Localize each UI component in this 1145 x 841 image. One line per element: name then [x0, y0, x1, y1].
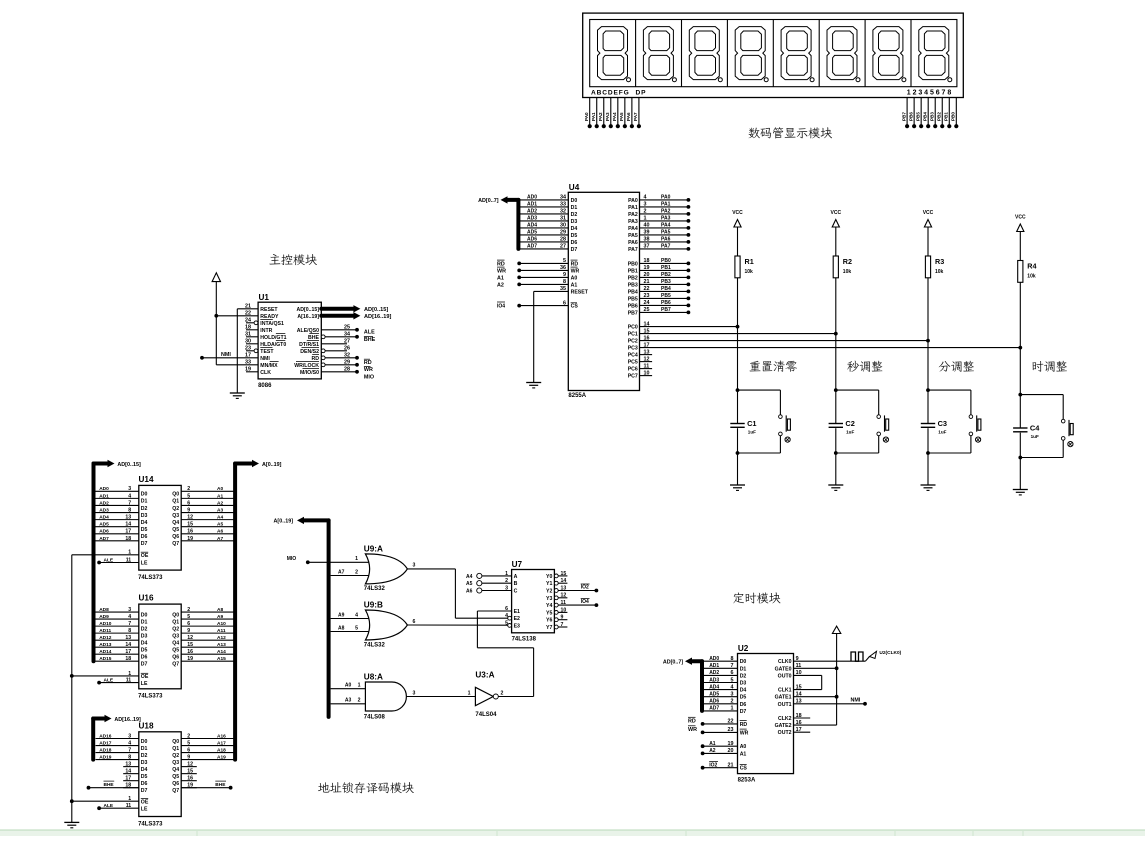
svg-text:15: 15 — [187, 642, 193, 648]
U14 pin 17 D6 wire AD6 — [96, 533, 139, 535]
U18 pin 13 D4 — [123, 766, 139, 768]
U14 pin 18 D7 wire AD7 — [96, 540, 139, 542]
bus A[0..19] decode tap — [327, 520, 331, 717]
wire OUT1 to NMI — [794, 703, 866, 705]
svg-text:AD19: AD19 — [99, 754, 112, 760]
svg-text:14: 14 — [125, 769, 131, 775]
U1 left name overlines — [260, 319, 273, 321]
svg-text:Q1: Q1 — [172, 619, 179, 625]
push button S1 — [738, 389, 781, 391]
svg-text:74LS373: 74LS373 — [138, 694, 163, 700]
svg-text:CS: CS — [740, 766, 748, 772]
U2 pin 22 RD wire RD — [701, 722, 705, 726]
svg-text:34: 34 — [344, 332, 350, 338]
U16 pin 18 D7 wire AD15 — [96, 660, 139, 662]
svg-text:AD2: AD2 — [99, 500, 109, 506]
U4 pin 10 PC7 — [640, 375, 652, 377]
junction bottom of button branch 4 — [1018, 456, 1022, 460]
svg-text:1uF: 1uF — [846, 430, 854, 435]
U1 pin 26 — [321, 350, 347, 352]
svg-text:31: 31 — [560, 216, 566, 222]
bottom pale green strip — [0, 830, 1145, 836]
svg-text:4: 4 — [355, 612, 358, 618]
display pin PA4 — [617, 98, 619, 127]
U18 pin 12 Q4 — [181, 766, 197, 768]
svg-text:PA5: PA5 — [661, 230, 671, 236]
svg-text:32: 32 — [344, 353, 350, 359]
U4 pin 31 D3 wire AD3 — [518, 220, 568, 222]
svg-text:LE: LE — [141, 806, 148, 812]
svg-text:PB0: PB0 — [661, 258, 671, 264]
wire CLK0 to clock source — [794, 660, 866, 662]
svg-text:Q0: Q0 — [172, 739, 179, 745]
ground under U1 — [230, 392, 245, 394]
svg-text:31: 31 — [245, 332, 251, 338]
svg-text:U7: U7 — [512, 560, 523, 569]
U16 pin 1 OE wire — [72, 675, 139, 677]
svg-text:12: 12 — [561, 593, 567, 599]
svg-text:6: 6 — [505, 606, 508, 612]
svg-text:20: 20 — [644, 272, 650, 278]
svg-text:WR: WR — [740, 730, 749, 736]
svg-text:D3: D3 — [141, 513, 148, 519]
U4 pin 32 D2 wire AD2 — [518, 213, 568, 215]
svg-text:19: 19 — [187, 536, 193, 542]
svg-text:3: 3 — [644, 202, 647, 208]
bus AD[0..7] into U2 — [700, 661, 704, 711]
svg-text:17: 17 — [245, 353, 251, 359]
svg-text:11: 11 — [561, 600, 567, 606]
U16 pin 2 Q0 wire A8 — [181, 611, 235, 613]
U7 pin 3 C wire A6 — [477, 588, 482, 593]
svg-text:AD6: AD6 — [709, 699, 719, 705]
svg-text:A18: A18 — [217, 747, 226, 753]
svg-text:Y4: Y4 — [546, 603, 552, 609]
svg-text:13: 13 — [125, 635, 131, 641]
svg-text:1: 1 — [644, 216, 647, 222]
svg-text:3: 3 — [731, 692, 734, 698]
junction top of button branch 1 — [736, 388, 740, 392]
svg-text:D2: D2 — [141, 506, 148, 512]
svg-text:PB5: PB5 — [915, 112, 920, 121]
junction top of button branch 3 — [926, 388, 930, 392]
svg-text:E2: E2 — [514, 616, 520, 622]
svg-text:D1: D1 — [571, 205, 578, 211]
svg-text:A3: A3 — [345, 698, 352, 704]
cpu U1 8086 box — [258, 302, 321, 379]
U18 pin 14 D5 — [123, 773, 139, 775]
svg-text:AD18: AD18 — [99, 747, 112, 753]
display cell divider 6 — [864, 20, 866, 87]
svg-text:5: 5 — [187, 740, 190, 746]
U18 pin 4 D1 wire AD17 — [96, 745, 139, 747]
svg-text:5: 5 — [563, 258, 566, 264]
svg-text:R4: R4 — [1027, 262, 1036, 271]
svg-text:A4: A4 — [466, 574, 473, 580]
wire U3:A out to E1 — [498, 696, 533, 698]
capacitor C3 1uF — [921, 423, 935, 424]
svg-text:IO2: IO2 — [709, 763, 717, 769]
U18 pin 2 Q0 wire A16 — [181, 738, 235, 740]
svg-text:PA6: PA6 — [661, 237, 671, 243]
U2 pin 2 D6 wire AD6 — [702, 703, 738, 705]
U1 pin 29 — [321, 364, 357, 366]
svg-text:10k: 10k — [935, 269, 944, 275]
svg-text:2: 2 — [501, 690, 504, 696]
U14 pin 12 Q4 wire A4 — [181, 519, 235, 521]
svg-text:9: 9 — [563, 272, 566, 278]
svg-text:15: 15 — [644, 328, 650, 334]
svg-text:A2: A2 — [709, 748, 716, 754]
svg-text:16: 16 — [644, 335, 650, 341]
svg-text:8: 8 — [731, 656, 734, 662]
svg-text:PC1: PC1 — [628, 332, 638, 338]
svg-text:23: 23 — [245, 346, 251, 352]
display digit area inner frame — [590, 20, 957, 87]
wire R2 down to capacitor — [835, 278, 837, 423]
svg-text:AD6: AD6 — [99, 529, 109, 535]
U4 pin 8 A1 wire A2 — [517, 283, 521, 287]
U16 pin 6 Q2 wire A10 — [181, 625, 235, 627]
wire capacitor to ground 4 — [1019, 433, 1021, 490]
display pin PB0 — [955, 98, 957, 127]
svg-text:D4: D4 — [141, 640, 148, 646]
svg-text:A[0..19]: A[0..19] — [262, 462, 282, 468]
svg-text:PB4: PB4 — [922, 112, 927, 121]
U2 pin 7 D1 wire AD1 — [702, 667, 738, 669]
svg-text:AD5: AD5 — [99, 522, 109, 528]
svg-text:13: 13 — [561, 585, 567, 591]
U4 pin 34 D0 wire AD0 — [518, 199, 568, 201]
svg-text:16: 16 — [187, 776, 193, 782]
U18 pin 18 D7 — [123, 787, 139, 789]
svg-text:A9: A9 — [217, 614, 223, 620]
U1 pin 30 HLDA/GT0 — [246, 343, 258, 345]
svg-text:BHE: BHE — [104, 782, 115, 788]
svg-text:D0: D0 — [141, 492, 148, 498]
svg-text:D3: D3 — [571, 219, 578, 225]
svg-text:Q4: Q4 — [172, 520, 179, 526]
push button S4 — [1020, 394, 1063, 396]
bus AD[0..15] latch module — [92, 464, 96, 662]
svg-text:PB0: PB0 — [951, 112, 956, 121]
capacitor C2 1uF — [829, 423, 843, 424]
U16 pin 4 D1 wire AD9 — [96, 618, 139, 620]
svg-text:PB3: PB3 — [930, 112, 935, 121]
svg-text:BHE: BHE — [308, 335, 319, 341]
svg-text:C1: C1 — [747, 419, 756, 428]
svg-text:ALE: ALE — [104, 803, 114, 809]
svg-text:A13: A13 — [217, 642, 226, 648]
svg-text:A15: A15 — [217, 656, 226, 662]
svg-text:AD10: AD10 — [99, 621, 112, 627]
U1 pin 27 — [321, 343, 347, 345]
svg-text:11: 11 — [126, 678, 132, 684]
svg-text:A14: A14 — [217, 649, 226, 655]
svg-text:30: 30 — [245, 339, 251, 345]
svg-text:IO4: IO4 — [581, 599, 589, 605]
U16 pin 3 D0 wire AD8 — [96, 611, 139, 613]
svg-text:8255A: 8255A — [568, 393, 586, 399]
resistor R2 10k — [833, 256, 838, 278]
svg-text:PA3: PA3 — [605, 112, 610, 121]
svg-text:1: 1 — [128, 671, 131, 677]
svg-text:A10: A10 — [217, 621, 226, 627]
U16 pin 13 D4 wire AD12 — [96, 639, 139, 641]
U4 pin 28 D6 wire AD6 — [518, 241, 568, 243]
wire GATE2 to VCC — [794, 724, 837, 726]
bus A[0..19] latch module output — [233, 464, 237, 760]
svg-text:23: 23 — [728, 727, 734, 733]
svg-text:24: 24 — [245, 318, 251, 324]
svg-text:PB4: PB4 — [661, 286, 671, 292]
junction PC0 pull-up — [736, 325, 740, 329]
svg-text:28: 28 — [344, 367, 350, 373]
svg-text:PB1: PB1 — [944, 112, 949, 121]
display cell divider 3 — [726, 20, 728, 87]
svg-text:Y1: Y1 — [546, 581, 552, 587]
svg-text:PB3: PB3 — [661, 279, 671, 285]
svg-text:A0: A0 — [740, 744, 747, 750]
svg-text:17: 17 — [125, 776, 131, 782]
U14 pin 15 Q5 wire A5 — [181, 526, 235, 528]
svg-text:7: 7 — [128, 621, 131, 627]
svg-text:39: 39 — [644, 230, 650, 236]
svg-text:74LS138: 74LS138 — [512, 637, 537, 643]
svg-text:9: 9 — [187, 754, 190, 760]
svg-text:D2: D2 — [141, 753, 148, 759]
svg-text:HLDA/GT0: HLDA/GT0 — [260, 342, 286, 348]
7-segment digit 4 — [735, 27, 765, 80]
U4 pin 22 PB4 — [640, 290, 689, 292]
svg-text:D2: D2 — [740, 673, 747, 679]
wire capacitor to ground 3 — [927, 428, 929, 485]
svg-text:PC6: PC6 — [628, 367, 638, 373]
svg-text:6: 6 — [187, 500, 190, 506]
svg-text:D4: D4 — [141, 767, 148, 773]
7-segment digit 6 — [827, 27, 857, 80]
svg-text:AD[0..15]: AD[0..15] — [117, 462, 141, 468]
svg-text:4: 4 — [128, 740, 131, 746]
svg-text:21: 21 — [728, 763, 734, 769]
svg-text:A5: A5 — [217, 522, 223, 528]
svg-text:22: 22 — [644, 286, 650, 292]
svg-text:4: 4 — [505, 613, 508, 619]
svg-text:A[0..19]: A[0..19] — [274, 519, 294, 525]
svg-text:PB0: PB0 — [628, 261, 638, 267]
svg-text:OUT0: OUT0 — [778, 673, 792, 679]
svg-text:A6: A6 — [466, 589, 473, 595]
svg-text:PC0: PC0 — [628, 325, 638, 331]
svg-text:17: 17 — [125, 529, 131, 535]
svg-text:17: 17 — [644, 342, 650, 348]
svg-text:U4: U4 — [569, 183, 580, 192]
svg-text:18: 18 — [125, 536, 131, 542]
svg-text:INTA/QS1: INTA/QS1 — [260, 321, 284, 327]
svg-text:M/IO/S0: M/IO/S0 — [300, 370, 319, 376]
svg-text:4: 4 — [128, 614, 131, 620]
svg-text:10k: 10k — [843, 269, 852, 275]
svg-text:11: 11 — [644, 363, 650, 369]
U16 pin 19 Q7 wire A15 — [181, 660, 235, 662]
U4 pin 21 PB3 — [640, 283, 689, 285]
svg-text:Q6: Q6 — [172, 534, 179, 540]
svg-text:Q5: Q5 — [172, 527, 179, 533]
U4 pin 25 PB7 — [640, 311, 689, 313]
svg-text:12345678: 12345678 — [907, 89, 953, 96]
svg-text:AD2: AD2 — [709, 670, 719, 676]
U4 pin 24 PB6 — [640, 304, 689, 306]
svg-text:2: 2 — [187, 733, 190, 739]
svg-text:33: 33 — [560, 202, 566, 208]
VCC arrow U1 — [215, 282, 217, 365]
svg-text:1: 1 — [128, 796, 131, 802]
svg-text:D6: D6 — [141, 654, 148, 660]
U4 pin 18 PB0 — [640, 262, 689, 264]
svg-text:A1: A1 — [740, 751, 747, 757]
svg-text:A16: A16 — [217, 733, 226, 739]
U18 pin 9 Q3 wire A19 — [181, 759, 235, 761]
U14 pin 9 Q3 wire A3 — [181, 512, 235, 514]
wire RESET to ground — [237, 308, 258, 310]
decoder U7 74LS138 box — [512, 570, 555, 633]
svg-text:AD7: AD7 — [527, 244, 537, 250]
U1 pin 31 HOLD/GT1 — [246, 336, 258, 338]
wire READY to VCC — [216, 315, 258, 317]
decimal point digit 4 — [764, 78, 768, 82]
svg-text:40: 40 — [644, 223, 650, 229]
svg-text:36: 36 — [560, 265, 566, 271]
svg-text:ALE: ALE — [104, 557, 114, 563]
svg-text:14: 14 — [125, 642, 131, 648]
svg-text:35: 35 — [560, 286, 566, 292]
svg-text:A0: A0 — [571, 275, 578, 281]
svg-text:11: 11 — [126, 803, 132, 809]
svg-text:5: 5 — [505, 620, 508, 626]
svg-text:B: B — [514, 581, 518, 587]
svg-text:AD4: AD4 — [709, 684, 719, 690]
svg-text:PC4: PC4 — [628, 353, 638, 359]
svg-text:7: 7 — [561, 622, 564, 628]
svg-text:IO4: IO4 — [497, 304, 505, 310]
ground column R2 — [828, 484, 843, 486]
svg-text:AD11: AD11 — [99, 628, 111, 634]
svg-text:PB7: PB7 — [661, 307, 671, 313]
svg-text:C2: C2 — [845, 419, 854, 428]
label button group 1 — [750, 360, 797, 371]
U4 pin 35 RESET wire to ground — [534, 290, 569, 292]
U2 pin 8 D0 wire AD0 — [702, 660, 738, 662]
svg-text:OE: OE — [141, 553, 149, 559]
svg-text:CLK2: CLK2 — [778, 716, 792, 722]
svg-text:PB1: PB1 — [628, 268, 638, 274]
svg-text:19: 19 — [245, 367, 251, 373]
svg-text:AD3: AD3 — [709, 677, 719, 683]
svg-text:6: 6 — [563, 300, 566, 306]
svg-text:PA5: PA5 — [628, 233, 638, 239]
svg-text:AD[0..15]: AD[0..15] — [364, 307, 388, 313]
U14 pin 5 Q1 wire A1 — [181, 497, 235, 499]
svg-text:C4: C4 — [1030, 424, 1040, 433]
svg-text:Q6: Q6 — [172, 781, 179, 787]
svg-text:D2: D2 — [141, 626, 148, 632]
svg-text:IO2: IO2 — [581, 584, 589, 590]
svg-text:11: 11 — [126, 557, 132, 563]
U4 pin 27 D7 wire AD7 — [518, 248, 568, 250]
U1 right name overlines — [309, 333, 319, 335]
junction top of button branch 2 — [834, 388, 838, 392]
7-segment digit 3 — [689, 27, 719, 80]
U14 pin 3 D0 wire AD0 — [96, 490, 139, 492]
svg-text:DEN/S2: DEN/S2 — [300, 349, 319, 355]
svg-text:30: 30 — [560, 223, 566, 229]
svg-text:AD16: AD16 — [99, 733, 112, 739]
svg-text:23: 23 — [644, 293, 650, 299]
7-segment digit 2 — [643, 27, 673, 80]
svg-text:1: 1 — [358, 683, 361, 689]
svg-text:3: 3 — [128, 607, 131, 613]
svg-text:A17: A17 — [217, 740, 226, 746]
svg-text:RD: RD — [571, 261, 579, 267]
ground column R3 — [921, 484, 936, 486]
svg-text:18: 18 — [644, 258, 650, 264]
svg-text:2: 2 — [355, 569, 358, 575]
svg-text:U1: U1 — [259, 293, 270, 302]
display module outer frame — [583, 13, 964, 97]
svg-text:D5: D5 — [141, 774, 148, 780]
U14 pin 7 D2 wire AD2 — [96, 504, 139, 506]
svg-text:2: 2 — [731, 699, 734, 705]
U16 pin 14 D5 wire AD13 — [96, 646, 139, 648]
svg-text:CLK1: CLK1 — [778, 688, 792, 694]
svg-text:GATE0: GATE0 — [775, 666, 792, 672]
svg-text:PB7: PB7 — [628, 310, 638, 316]
svg-text:33: 33 — [245, 360, 251, 366]
svg-text:D0: D0 — [141, 739, 148, 745]
U2 pin 6 D2 wire AD2 — [702, 674, 738, 676]
svg-text:10: 10 — [644, 370, 650, 376]
svg-text:AD[16..19]: AD[16..19] — [114, 717, 141, 723]
svg-text:D7: D7 — [141, 661, 148, 667]
svg-text:74LS32: 74LS32 — [364, 586, 386, 592]
svg-text:27: 27 — [560, 244, 566, 250]
svg-text:Q7: Q7 — [172, 788, 179, 794]
U18 pin 6 Q2 wire A18 — [181, 752, 235, 754]
svg-text:D7: D7 — [571, 247, 578, 253]
U2 pin 5 D3 wire AD3 — [702, 682, 738, 684]
wire NMI into U1 — [200, 356, 204, 360]
wire OE chain to ground — [71, 555, 73, 823]
U4 pin 19 PB1 — [640, 269, 689, 271]
svg-text:1: 1 — [505, 571, 508, 577]
clock waveform icon — [851, 652, 863, 661]
display pin PB1 — [948, 98, 950, 127]
svg-text:PC3: PC3 — [628, 346, 638, 352]
svg-text:PA7: PA7 — [661, 244, 671, 250]
svg-text:AD0: AD0 — [527, 195, 537, 201]
wire GATE0 to VCC — [794, 667, 837, 669]
U2 pin 3 D5 wire AD5 — [702, 696, 738, 698]
svg-text:AD14: AD14 — [99, 649, 112, 655]
svg-text:Q6: Q6 — [172, 654, 179, 660]
VCC arrow U2 gates — [836, 634, 838, 726]
svg-text:PA6: PA6 — [628, 240, 638, 246]
U14 pin 1 OE wire — [72, 554, 139, 556]
decimal point digit 7 — [902, 78, 906, 82]
svg-text:10: 10 — [561, 607, 567, 613]
svg-text:13: 13 — [644, 349, 650, 355]
svg-text:4: 4 — [644, 195, 647, 201]
